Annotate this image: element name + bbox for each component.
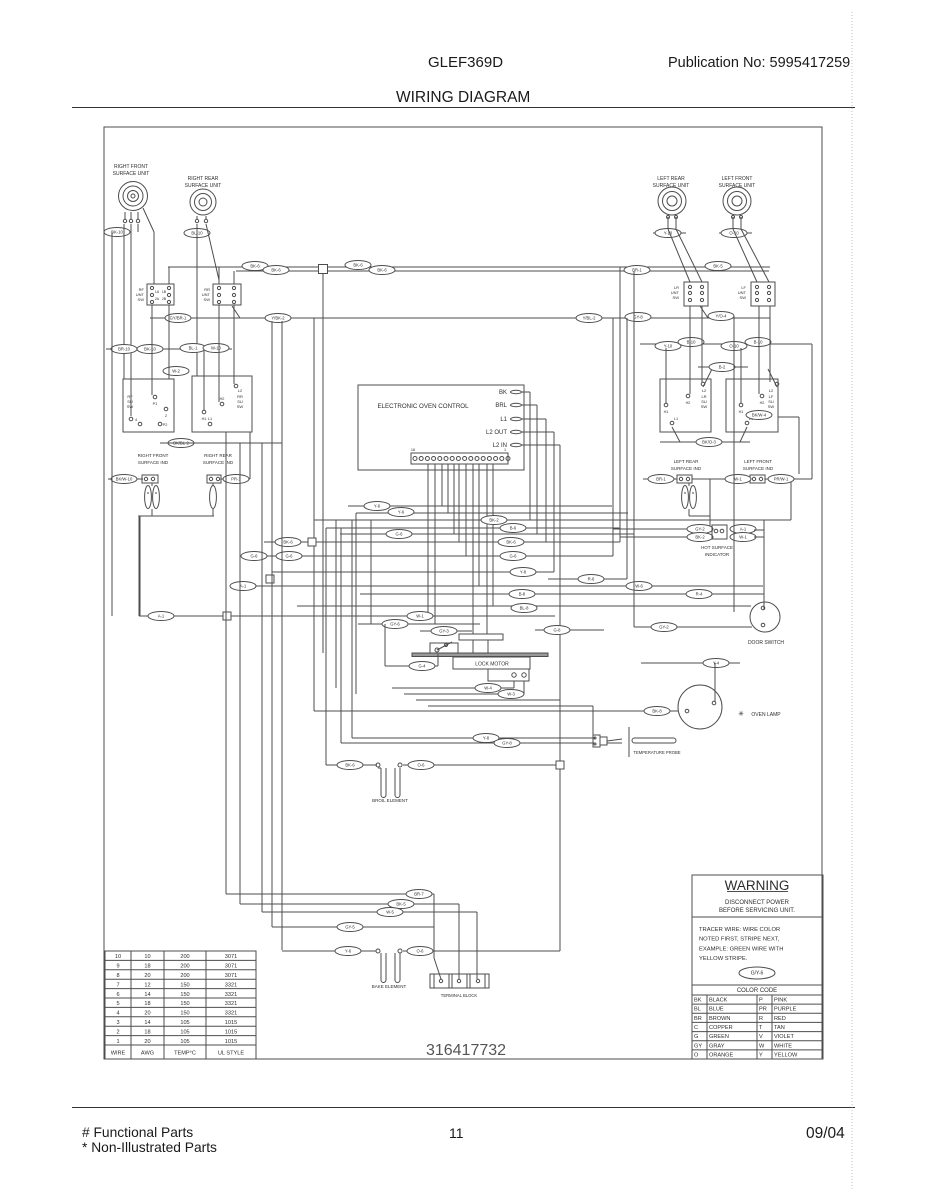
svg-text:TEMPERATURE PROBE: TEMPERATURE PROBE (633, 750, 680, 755)
svg-text:105: 105 (180, 1020, 189, 1026)
svg-text:BK-5: BK-5 (396, 902, 406, 907)
svg-text:AWG: AWG (141, 1051, 154, 1057)
svg-text:GY-3: GY-3 (439, 629, 449, 634)
svg-text:8: 8 (116, 973, 119, 979)
svg-text:H1: H1 (202, 417, 207, 421)
svg-text:LEFT REAR: LEFT REAR (657, 176, 685, 182)
svg-text:PR/W-1: PR/W-1 (774, 477, 789, 482)
svg-text:G-6: G-6 (510, 554, 518, 559)
svg-text:Y-10: Y-10 (664, 231, 673, 236)
svg-text:BR: BR (694, 1016, 702, 1022)
svg-text:3071: 3071 (225, 964, 237, 970)
svg-text:L2: L2 (238, 388, 243, 393)
svg-text:200: 200 (180, 964, 189, 970)
svg-text:P2: P2 (163, 423, 168, 427)
svg-text:GY-8: GY-8 (633, 315, 643, 320)
svg-text:150: 150 (180, 1001, 189, 1007)
svg-text:BR-7: BR-7 (414, 892, 424, 897)
svg-text:RIGHT FRONT: RIGHT FRONT (138, 453, 169, 458)
svg-text:A-1: A-1 (158, 614, 165, 619)
svg-text:H1: H1 (739, 410, 744, 414)
svg-text:ELECTRONIC OVEN CONTROL: ELECTRONIC OVEN CONTROL (377, 403, 469, 410)
svg-text:14: 14 (144, 992, 150, 998)
svg-text:RIGHT REAR: RIGHT REAR (188, 176, 219, 182)
svg-text:BK: BK (499, 390, 507, 396)
svg-text:GY/BR-1: GY/BR-1 (170, 316, 187, 321)
svg-text:Y-8: Y-8 (483, 736, 490, 741)
svg-text:18: 18 (144, 1029, 150, 1035)
svg-text:1: 1 (116, 1039, 119, 1045)
svg-text:BL: BL (694, 1007, 701, 1013)
svg-text:W-10: W-10 (211, 346, 222, 351)
svg-text:1015: 1015 (225, 1020, 237, 1026)
svg-text:L1: L1 (208, 417, 212, 421)
svg-text:SURFACE IND: SURFACE IND (743, 466, 774, 471)
svg-text:COLOR CODE: COLOR CODE (737, 988, 777, 994)
svg-text:TERMINAL BLOCK: TERMINAL BLOCK (441, 993, 478, 998)
svg-text:SURFACE IND: SURFACE IND (671, 466, 702, 471)
svg-text:BAKE ELEMENT: BAKE ELEMENT (372, 984, 407, 989)
svg-text:WHITE: WHITE (774, 1043, 792, 1049)
svg-text:GY-2: GY-2 (659, 625, 669, 630)
svg-text:DISCONNECT POWER: DISCONNECT POWER (725, 900, 790, 906)
svg-text:O: O (694, 1052, 699, 1058)
svg-text:Y: Y (759, 1052, 763, 1058)
svg-text:BL-8: BL-8 (520, 606, 530, 611)
svg-text:Y-6: Y-6 (398, 510, 405, 515)
svg-text:4: 4 (135, 418, 137, 422)
svg-text:YELLOW STRIPE.: YELLOW STRIPE. (699, 956, 748, 962)
svg-text:LEFT REAR: LEFT REAR (674, 459, 699, 464)
svg-text:WIRE: WIRE (111, 1051, 126, 1057)
svg-text:W-1: W-1 (739, 535, 747, 540)
svg-text:W-1: W-1 (416, 614, 424, 619)
svg-text:GY-5: GY-5 (345, 925, 355, 930)
svg-text:TAN: TAN (774, 1025, 785, 1031)
svg-text:Y-8: Y-8 (520, 570, 527, 575)
svg-text:1015: 1015 (225, 1039, 237, 1045)
svg-text:G-6: G-6 (251, 554, 259, 559)
svg-text:20: 20 (144, 973, 150, 979)
svg-text:G/Y-6: G/Y-6 (751, 971, 764, 977)
svg-text:H1: H1 (664, 410, 669, 414)
svg-text:9: 9 (116, 964, 119, 970)
svg-text:1015: 1015 (225, 1029, 237, 1035)
svg-text:B-6: B-6 (510, 526, 517, 531)
svg-text:SURFACE UNIT: SURFACE UNIT (719, 183, 756, 189)
svg-text:BK/O-3: BK/O-3 (702, 440, 716, 445)
svg-text:BK-6: BK-6 (345, 763, 355, 768)
svg-text:12: 12 (144, 982, 150, 988)
svg-text:200: 200 (180, 973, 189, 979)
svg-text:105: 105 (180, 1029, 189, 1035)
svg-text:BK-10: BK-10 (111, 230, 123, 235)
svg-text:A-1: A-1 (740, 527, 747, 532)
svg-text:LEFT FRONT: LEFT FRONT (722, 176, 753, 182)
svg-text:BEFORE SERVICING UNIT.: BEFORE SERVICING UNIT. (719, 908, 795, 914)
svg-text:BK-6: BK-6 (506, 540, 516, 545)
svg-text:Y-6: Y-6 (374, 504, 381, 509)
svg-text:H2: H2 (220, 397, 225, 401)
svg-text:NOTED FIRST, STRIPE NEXT,: NOTED FIRST, STRIPE NEXT, (699, 937, 780, 943)
svg-text:G-4: G-4 (419, 664, 427, 669)
svg-text:Y/BK-2: Y/BK-2 (271, 316, 285, 321)
svg-text:Y-4: Y-4 (713, 661, 720, 666)
svg-text:B-8: B-8 (519, 592, 526, 597)
svg-text:PINK: PINK (774, 998, 787, 1004)
svg-text:BK-10: BK-10 (144, 347, 156, 352)
svg-text:GY-2: GY-2 (695, 527, 705, 532)
svg-text:3321: 3321 (225, 982, 237, 988)
svg-text:L1: L1 (674, 417, 678, 421)
svg-text:BK: BK (694, 998, 702, 1004)
svg-text:INDICATOR: INDICATOR (705, 552, 730, 557)
svg-text:BK-5: BK-5 (713, 264, 723, 269)
svg-text:R: R (759, 1016, 763, 1022)
svg-text:BRL: BRL (495, 403, 507, 409)
svg-text:H2: H2 (686, 401, 691, 405)
svg-text:T: T (759, 1025, 763, 1031)
svg-text:L2 OUT: L2 OUT (486, 430, 507, 436)
svg-text:316417732: 316417732 (426, 1042, 506, 1059)
svg-text:SURFACE UNIT: SURFACE UNIT (185, 183, 222, 189)
svg-text:SURFACE UNIT: SURFACE UNIT (653, 183, 690, 189)
svg-text:BROWN: BROWN (709, 1016, 730, 1022)
svg-text:BK-8: BK-8 (652, 709, 662, 714)
svg-text:150: 150 (180, 1011, 189, 1017)
svg-text:SW: SW (701, 404, 708, 409)
svg-text:2A: 2A (155, 297, 160, 301)
svg-text:BK-2: BK-2 (489, 518, 499, 523)
svg-text:BLUE: BLUE (709, 1007, 724, 1013)
svg-text:BROIL ELEMENT: BROIL ELEMENT (372, 798, 408, 803)
svg-text:BK/W-4: BK/W-4 (752, 413, 767, 418)
svg-text:C: C (694, 1025, 698, 1031)
svg-text:BR-10: BR-10 (118, 347, 131, 352)
svg-text:2B: 2B (162, 297, 167, 301)
svg-text:5: 5 (116, 1001, 119, 1007)
svg-text:SW: SW (204, 297, 211, 302)
svg-text:SURFACE IND: SURFACE IND (203, 460, 234, 465)
svg-text:SURFACE IND: SURFACE IND (138, 460, 169, 465)
svg-text:BK-6: BK-6 (377, 268, 387, 273)
svg-text:P1: P1 (153, 402, 158, 406)
svg-text:PR: PR (759, 1007, 767, 1013)
svg-text:18: 18 (144, 964, 150, 970)
svg-text:7: 7 (116, 982, 119, 988)
svg-text:PURPLE: PURPLE (774, 1007, 797, 1013)
svg-text:TEMP°C: TEMP°C (174, 1051, 196, 1057)
svg-text:B-10: B-10 (687, 340, 697, 345)
svg-text:YELLOW: YELLOW (774, 1052, 798, 1058)
svg-text:VIOLET: VIOLET (774, 1034, 794, 1040)
svg-text:W-6: W-6 (635, 584, 643, 589)
svg-text:A-1: A-1 (240, 584, 247, 589)
svg-text:EXAMPLE: GREEN WIRE WITH: EXAMPLE: GREEN WIRE WITH (699, 946, 783, 952)
svg-text:W-4: W-4 (484, 686, 492, 691)
svg-text:L2: L2 (702, 388, 707, 393)
svg-text:10: 10 (115, 954, 121, 960)
svg-text:SW: SW (138, 297, 145, 302)
svg-text:20: 20 (144, 1011, 150, 1017)
svg-text:LOCK MOTOR: LOCK MOTOR (475, 662, 509, 668)
svg-text:G-6: G-6 (286, 554, 294, 559)
svg-text:150: 150 (180, 992, 189, 998)
svg-text:BR-1: BR-1 (656, 477, 666, 482)
svg-text:W: W (759, 1043, 765, 1049)
svg-text:G-8: G-8 (554, 628, 562, 633)
svg-text:Y-6: Y-6 (345, 949, 352, 954)
svg-text:RED: RED (774, 1016, 786, 1022)
svg-text:1: 1 (504, 448, 506, 452)
svg-text:3321: 3321 (225, 992, 237, 998)
svg-text:BK-6: BK-6 (271, 268, 281, 273)
svg-text:G-6: G-6 (396, 532, 404, 537)
svg-text:LEFT FRONT: LEFT FRONT (744, 459, 772, 464)
svg-text:SW: SW (740, 295, 747, 300)
svg-text:DOOR SWITCH: DOOR SWITCH (748, 640, 784, 646)
svg-text:✳: ✳ (738, 710, 744, 718)
svg-text:BK-6: BK-6 (250, 264, 260, 269)
svg-text:BL-1: BL-1 (189, 346, 199, 351)
svg-text:TRACER WIRE: WIRE COLOR: TRACER WIRE: WIRE COLOR (699, 927, 780, 933)
svg-text:10: 10 (144, 954, 150, 960)
svg-text:SW: SW (673, 295, 680, 300)
svg-text:1A: 1A (155, 290, 160, 294)
svg-text:3071: 3071 (225, 973, 237, 979)
svg-text:O-6: O-6 (417, 949, 425, 954)
svg-text:1B: 1B (162, 290, 167, 294)
svg-text:RIGHT REAR: RIGHT REAR (204, 453, 232, 458)
svg-text:GREEN: GREEN (709, 1034, 729, 1040)
svg-text:BK-6: BK-6 (283, 540, 293, 545)
svg-text:G: G (694, 1034, 698, 1040)
svg-text:OVEN LAMP: OVEN LAMP (751, 712, 781, 718)
svg-text:O-6: O-6 (418, 763, 426, 768)
svg-text:GY-8: GY-8 (502, 741, 512, 746)
svg-text:UL STYLE: UL STYLE (218, 1051, 244, 1057)
svg-text:H2: H2 (760, 401, 765, 405)
svg-text:2: 2 (165, 414, 167, 418)
svg-text:P: P (759, 998, 763, 1004)
svg-text:18: 18 (144, 1001, 150, 1007)
svg-text:L1: L1 (500, 417, 507, 423)
svg-text:W-1: W-1 (734, 477, 742, 482)
svg-text:3321: 3321 (225, 1011, 237, 1017)
svg-text:B-2: B-2 (719, 365, 726, 370)
svg-text:BK/W-10: BK/W-10 (116, 477, 133, 482)
svg-text:16: 16 (411, 448, 415, 452)
svg-text:SW: SW (127, 404, 134, 409)
svg-text:3: 3 (116, 1020, 119, 1026)
svg-text:Y/BL-2: Y/BL-2 (583, 316, 596, 321)
svg-text:GRAY: GRAY (709, 1043, 725, 1049)
svg-text:V: V (759, 1034, 763, 1040)
svg-text:RIGHT FRONT: RIGHT FRONT (114, 164, 148, 170)
svg-text:W-2: W-2 (172, 369, 180, 374)
svg-text:3071: 3071 (225, 954, 237, 960)
svg-text:Y/O-4: Y/O-4 (716, 314, 728, 319)
svg-text:WARNING: WARNING (725, 878, 790, 893)
svg-text:SW: SW (237, 404, 244, 409)
svg-text:BLACK: BLACK (709, 998, 728, 1004)
svg-text:BK-6: BK-6 (353, 263, 363, 268)
svg-text:GY-6: GY-6 (390, 622, 400, 627)
svg-text:B-10: B-10 (754, 340, 764, 345)
svg-text:6: 6 (116, 992, 119, 998)
svg-text:R-4: R-4 (696, 592, 703, 597)
svg-text:COPPER: COPPER (709, 1025, 733, 1031)
svg-text:SURFACE UNIT: SURFACE UNIT (113, 171, 150, 177)
svg-text:4: 4 (116, 1011, 119, 1017)
svg-text:Y-10: Y-10 (664, 344, 673, 349)
svg-text:GY: GY (694, 1043, 702, 1049)
svg-text:SW: SW (768, 404, 775, 409)
svg-text:2: 2 (116, 1029, 119, 1035)
svg-text:R-6: R-6 (588, 577, 595, 582)
svg-text:W-3: W-3 (507, 692, 515, 697)
svg-text:HOT SURFACE: HOT SURFACE (701, 545, 733, 550)
svg-text:150: 150 (180, 982, 189, 988)
svg-text:14: 14 (144, 1020, 150, 1026)
svg-text:BK-2: BK-2 (695, 535, 705, 540)
svg-text:200: 200 (180, 954, 189, 960)
svg-text:ORANGE: ORANGE (709, 1052, 734, 1058)
svg-text:L2: L2 (769, 388, 774, 393)
svg-text:3321: 3321 (225, 1001, 237, 1007)
svg-text:W-5: W-5 (386, 910, 394, 915)
svg-text:105: 105 (180, 1039, 189, 1045)
svg-text:20: 20 (144, 1039, 150, 1045)
